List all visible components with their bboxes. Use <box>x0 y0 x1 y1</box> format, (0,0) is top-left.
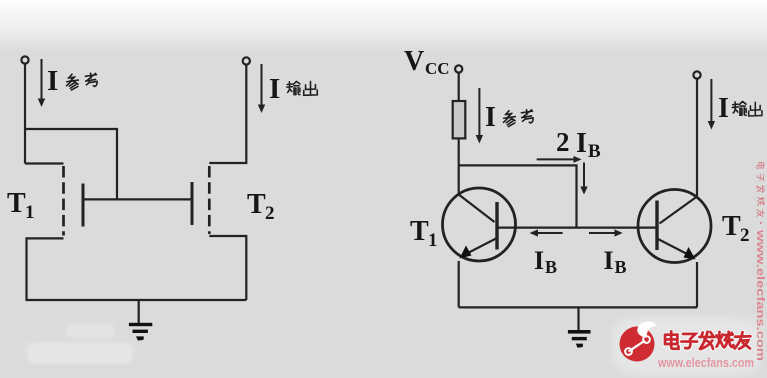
svg-text:2: 2 <box>265 203 275 224</box>
svg-text:I: I <box>604 246 614 275</box>
wire: base feed horizontal <box>459 165 577 227</box>
transistor Q1 base bar <box>495 202 498 250</box>
wire: resistor to T1 collector <box>458 138 460 195</box>
wire: bottom rail <box>26 299 247 301</box>
wire: Vcc down to resistor <box>458 73 460 101</box>
wire: T2 source connection <box>209 236 246 300</box>
terminal (output) <box>243 57 250 64</box>
transistor T1 gate bar <box>82 184 85 227</box>
transistor Q2 emitter arrowhead <box>684 247 696 260</box>
transistor Q2 collector diagonal <box>660 197 698 224</box>
svg-text:· www.elecfans.com: · www.elecfans.com <box>754 221 766 361</box>
wire: T1 drain connection <box>25 162 64 164</box>
watermark text 电子发烧友 <box>665 331 750 349</box>
transistor Q2 circle <box>638 190 711 263</box>
elecfans logo <box>620 321 657 361</box>
svg-text:I: I <box>269 73 280 105</box>
faint erased watermark smudge bottom-left <box>66 324 114 338</box>
svg-text:B: B <box>545 257 557 277</box>
arrow I_ref (right) <box>476 88 483 144</box>
white halo behind watermark <box>612 318 762 374</box>
svg-text:2: 2 <box>556 127 570 157</box>
svg-text:B: B <box>588 141 601 162</box>
resistor R <box>453 101 466 138</box>
wire: base rail <box>497 227 657 229</box>
wire: left terminal down <box>24 64 26 164</box>
arrow IB right <box>589 229 623 236</box>
ground stem (right) <box>577 307 579 330</box>
ground (left) <box>129 323 152 341</box>
transistor Q1 emitter arrowhead <box>460 246 472 259</box>
arrow 2IB bent <box>537 156 588 195</box>
wire: T2 drain connection <box>209 65 246 163</box>
wire: bottom rail (right) <box>459 306 697 308</box>
svg-text:1: 1 <box>428 230 438 251</box>
left circuit <box>21 56 250 323</box>
wire: Q2 emitter down <box>696 262 698 307</box>
svg-text:T: T <box>410 216 429 247</box>
svg-text:T: T <box>722 211 741 242</box>
arrow I_out (left) <box>258 64 265 113</box>
svg-text:I: I <box>534 246 544 275</box>
svg-text:B: B <box>615 257 627 277</box>
arrow I_ref (left) <box>38 59 45 107</box>
svg-text:T: T <box>247 189 266 220</box>
transistor Q1 emitter diagonal <box>464 239 496 256</box>
wire: Q1 emitter down <box>458 261 460 307</box>
terminal (output right) <box>693 71 700 78</box>
transistor T2 channel (dashed) <box>208 166 211 234</box>
vertical edge watermark <box>754 162 766 361</box>
svg-text:www.elecfans.com: www.elecfans.com <box>657 355 754 370</box>
ground (right) <box>568 330 591 348</box>
terminal Vcc <box>455 65 462 72</box>
transistor Q2 emitter diagonal <box>658 239 691 256</box>
transistor Q1 circle <box>443 188 516 261</box>
arrow IB left <box>530 229 563 236</box>
svg-text:CC: CC <box>425 59 450 78</box>
svg-text:I: I <box>485 102 496 133</box>
wire: gate line <box>83 198 192 200</box>
ground stem <box>138 300 140 323</box>
svg-text:2: 2 <box>740 225 750 246</box>
svg-text:I: I <box>718 93 729 124</box>
terminal (reference input) <box>21 56 28 63</box>
svg-text:I: I <box>47 65 58 97</box>
svg-text:1: 1 <box>25 202 35 223</box>
transistor Q2 base bar <box>655 201 658 251</box>
wire: T1 source connection <box>27 238 64 300</box>
svg-text:T: T <box>7 188 26 219</box>
svg-text:I: I <box>576 128 587 159</box>
arrow I_out (right) <box>708 79 715 130</box>
wire: gate feed branch <box>25 129 117 199</box>
transistor T2 gate bar <box>191 182 194 225</box>
top white band <box>0 0 767 52</box>
svg-text:V: V <box>404 46 424 77</box>
transistor Q1 collector diagonal <box>459 195 495 223</box>
transistor T1 channel (dashed) <box>62 166 65 236</box>
wire: Q2 collector up to terminal <box>696 79 698 197</box>
